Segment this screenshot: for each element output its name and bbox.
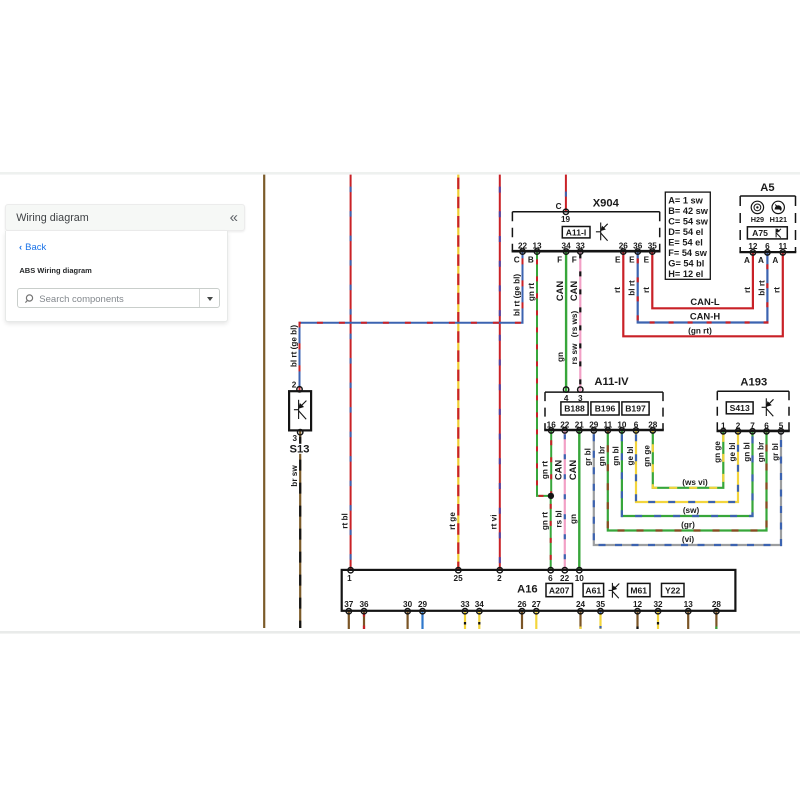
svg-text:S13: S13 bbox=[290, 444, 310, 456]
svg-text:C: C bbox=[514, 256, 520, 265]
wire gn bl (sw) U: A11-IV pin10 to A193 pin7 bbox=[622, 430, 753, 516]
wire rt bl vertical to A16 pin1 bbox=[350, 175, 352, 571]
svg-text:gn: gn bbox=[556, 352, 565, 362]
svg-text:E: E bbox=[615, 256, 621, 265]
svg-text:gn: gn bbox=[569, 514, 578, 524]
svg-text:B: B bbox=[528, 256, 534, 265]
svg-text:gn bl: gn bl bbox=[742, 442, 751, 462]
svg-text:G= 54 bl: G= 54 bl bbox=[668, 259, 704, 269]
A16 bottom pin numbers bbox=[344, 600, 721, 609]
svg-text:33: 33 bbox=[460, 600, 470, 609]
svg-text:gn ge: gn ge bbox=[713, 441, 722, 463]
svg-text:A193: A193 bbox=[740, 376, 767, 388]
svg-text:16: 16 bbox=[547, 421, 557, 430]
top separator bbox=[0, 172, 800, 175]
A16 bottom stub pin36 br rt bbox=[363, 611, 365, 629]
svg-text:F: F bbox=[572, 256, 577, 265]
A5 internal box A75 bbox=[747, 227, 787, 239]
bottom separator bbox=[0, 631, 800, 634]
A11-IV bottom pin circles bbox=[549, 428, 656, 433]
svg-text:A11-IV: A11-IV bbox=[594, 376, 629, 388]
svg-text:CAN: CAN bbox=[553, 460, 564, 481]
A193 pin numbers 1 2 7 6 5 bbox=[721, 421, 784, 430]
wire CAN rs bl: A11-IV pin22 to A16 pin22 bbox=[564, 430, 566, 570]
X904 internal box A11-I bbox=[562, 227, 590, 238]
wire bl rt CAN-H U: X904 pin36 to A5 pin6 bbox=[638, 251, 768, 322]
left UI panel bbox=[5, 204, 245, 231]
A5 pin numbers 12 6 11 bbox=[748, 242, 787, 251]
svg-text:A75: A75 bbox=[752, 228, 768, 238]
B188 B196 B197 text bbox=[564, 404, 646, 414]
wire ge bl U: A11-IV pin6 to A193 pin2 bbox=[636, 430, 738, 502]
S13 switch icon bbox=[294, 400, 307, 419]
svg-text:A: A bbox=[744, 256, 750, 265]
A16 bottom stub pin28 br gn bbox=[715, 611, 717, 629]
junction node gn rt bbox=[548, 493, 554, 499]
svg-text:B197: B197 bbox=[625, 404, 646, 414]
A5 lamp icon H29 bbox=[751, 201, 763, 213]
wire gn rt: junction to A16 pin6 bbox=[550, 496, 552, 571]
A11-IV bottom pin numbers bbox=[547, 421, 658, 430]
svg-text:12: 12 bbox=[748, 242, 758, 251]
svg-text:bl rt: bl rt bbox=[628, 280, 637, 296]
svg-text:6: 6 bbox=[548, 574, 553, 583]
A16 bottom stub pin13 br bbox=[687, 611, 689, 629]
svg-text:A207: A207 bbox=[549, 585, 570, 595]
svg-text:36: 36 bbox=[633, 241, 643, 250]
svg-text:26: 26 bbox=[517, 600, 527, 609]
svg-text:(gn rt): (gn rt) bbox=[688, 326, 712, 335]
svg-text:13: 13 bbox=[532, 241, 542, 250]
legend text bbox=[668, 195, 708, 279]
svg-text:7: 7 bbox=[750, 421, 755, 430]
svg-text:rt vi: rt vi bbox=[490, 514, 499, 529]
svg-text:CAN: CAN bbox=[554, 281, 565, 302]
svg-text:2: 2 bbox=[292, 381, 297, 390]
svg-text:gr bl: gr bl bbox=[771, 443, 780, 461]
wire gn rt: A11-IV pin16 down to junction bbox=[550, 430, 552, 496]
svg-text:10: 10 bbox=[575, 574, 585, 583]
svg-text:A: A bbox=[772, 256, 778, 265]
A193 internal box S413 bbox=[726, 402, 753, 414]
svg-text:A5: A5 bbox=[760, 182, 774, 194]
svg-text:24: 24 bbox=[576, 600, 586, 609]
A16 bottom pin circles bbox=[346, 609, 719, 614]
svg-text:rt: rt bbox=[613, 287, 622, 293]
A16 bottom stub pin26 br bbox=[521, 611, 523, 629]
svg-text:29: 29 bbox=[418, 600, 428, 609]
svg-text:3: 3 bbox=[292, 434, 297, 443]
svg-text:rs bl: rs bl bbox=[555, 510, 564, 527]
svg-text:gn bl: gn bl bbox=[612, 446, 621, 466]
A5 indicator icon H121 bbox=[772, 201, 784, 213]
connector A5 frame bbox=[739, 196, 796, 252]
svg-text:B188: B188 bbox=[564, 404, 585, 414]
svg-text:gn br: gn br bbox=[598, 445, 607, 466]
svg-text:CAN: CAN bbox=[567, 460, 578, 481]
wire gr bl (vi) U: A11-IV pin29 to A193 pin5 bbox=[594, 430, 781, 545]
svg-text:33: 33 bbox=[576, 241, 586, 250]
connector A193 frame bbox=[717, 391, 790, 431]
A16 bottom stub pin35 ge bl bbox=[599, 611, 601, 629]
svg-text:gn rt: gn rt bbox=[527, 283, 536, 301]
X904 pin letters C B F F E E E bbox=[514, 256, 650, 265]
svg-text:2: 2 bbox=[497, 574, 502, 583]
svg-text:E: E bbox=[644, 256, 650, 265]
wire CAN gn: X904 pin34 to A11-IV pin4 bbox=[565, 251, 567, 392]
X904 bottom pin circles 22 13 34 33 26 36 35 bbox=[520, 249, 655, 254]
wire rt ge vertical to A16 pin25 bbox=[457, 175, 459, 571]
svg-text:H121: H121 bbox=[770, 215, 787, 224]
wire rt bl feed into X904 pin C bbox=[565, 175, 567, 213]
svg-text:rs sw: rs sw bbox=[570, 343, 579, 365]
svg-text:11: 11 bbox=[778, 242, 787, 251]
svg-text:rt ge: rt ge bbox=[448, 512, 457, 530]
wire rt CAN-L U: X904 pin35 to A5 pin12 bbox=[652, 251, 753, 308]
A5 pin letters A A A bbox=[744, 256, 778, 265]
svg-text:ge bl: ge bl bbox=[728, 442, 737, 461]
svg-text:22: 22 bbox=[560, 421, 570, 430]
svg-text:rt: rt bbox=[642, 287, 651, 293]
S13 title bbox=[289, 444, 310, 454]
svg-text:(rs ws): (rs ws) bbox=[570, 311, 579, 338]
A11-IV top pin circles 4 3 bbox=[563, 387, 583, 392]
svg-text:25: 25 bbox=[454, 574, 464, 583]
S13 pin circles 2 3 bbox=[297, 387, 303, 435]
svg-text:(sw): (sw) bbox=[683, 506, 700, 515]
svg-text:C: C bbox=[556, 202, 562, 211]
wire rt (gn rt) U: X904 pin26 to A5 pin11 bbox=[623, 251, 783, 336]
svg-text:28: 28 bbox=[648, 421, 658, 430]
A16 top pin circles 1 25 2 6 22 10 bbox=[348, 568, 582, 573]
svg-text:A61: A61 bbox=[585, 585, 601, 595]
A16 bottom stub pin30 br bbox=[407, 611, 409, 629]
connector A11-IV frame bbox=[544, 392, 664, 430]
svg-text:37: 37 bbox=[344, 600, 354, 609]
svg-text:36: 36 bbox=[359, 600, 369, 609]
svg-text:br sw: br sw bbox=[290, 465, 299, 487]
svg-text:D= 54 el: D= 54 el bbox=[668, 227, 703, 237]
svg-text:CAN: CAN bbox=[568, 281, 579, 302]
A16 internal box texts bbox=[549, 585, 681, 595]
wire rt vi vertical to A16 pin2 bbox=[499, 175, 501, 571]
svg-text:32: 32 bbox=[653, 600, 663, 609]
component S13 box bbox=[289, 391, 311, 430]
svg-text:gn rt: gn rt bbox=[541, 461, 550, 479]
svg-text:30: 30 bbox=[403, 600, 413, 609]
A16 bottom stub pin12 br sw bbox=[636, 611, 638, 629]
legend box bbox=[665, 192, 710, 279]
svg-text:B= 42 sw: B= 42 sw bbox=[668, 206, 708, 216]
A11-IV top pin numbers 4 3 bbox=[564, 394, 583, 403]
A16 bottom stub pin32 ge sw bbox=[657, 611, 659, 629]
svg-text:(vi): (vi) bbox=[682, 535, 695, 544]
wire CAN rs sw: X904 pin33 to A11-IV pin3 bbox=[579, 251, 581, 392]
A16 bottom stub pin37 br bbox=[348, 611, 350, 629]
svg-text:E: E bbox=[629, 256, 635, 265]
svg-text:27: 27 bbox=[532, 600, 542, 609]
A16 bottom stub pin34 ge sw bbox=[478, 611, 480, 629]
svg-text:Y22: Y22 bbox=[665, 585, 681, 595]
wire br sw from S13 pin3 to bottom bbox=[299, 431, 301, 628]
A193 pin circles 1 2 7 6 5 bbox=[721, 429, 784, 434]
svg-text:ge bl: ge bl bbox=[626, 446, 635, 465]
svg-text:gn rt: gn rt bbox=[541, 512, 550, 530]
svg-text:11: 11 bbox=[603, 421, 612, 430]
svg-text:12: 12 bbox=[633, 600, 643, 609]
svg-text:X904: X904 bbox=[593, 198, 620, 210]
X904 pin circle C/19 bbox=[563, 209, 568, 214]
A16 top pin numbers bbox=[347, 574, 584, 583]
svg-text:rt bl: rt bl bbox=[340, 513, 349, 528]
A5 pin circles 12 6 11 bbox=[750, 250, 785, 255]
wire br vertical feed bbox=[263, 175, 265, 628]
svg-text:bl rt: bl rt bbox=[757, 280, 766, 296]
svg-text:35: 35 bbox=[596, 600, 606, 609]
svg-text:H= 12 el: H= 12 el bbox=[668, 269, 703, 279]
svg-text:2: 2 bbox=[736, 421, 741, 430]
svg-text:(gr): (gr) bbox=[681, 521, 695, 530]
A16 control-unit icon bbox=[609, 583, 620, 598]
connector A16 box bbox=[342, 570, 736, 611]
A11-IV internal boxes B188 B196 B197 bbox=[561, 402, 649, 415]
svg-text:S413: S413 bbox=[730, 403, 750, 413]
wire gn ge (ws vi) U: A11-IV pin28 to A193 pin1 bbox=[653, 430, 724, 488]
svg-text:4: 4 bbox=[564, 394, 569, 403]
svg-text:E= 54 el: E= 54 el bbox=[668, 238, 702, 248]
svg-text:29: 29 bbox=[589, 421, 599, 430]
svg-text:6: 6 bbox=[634, 421, 639, 430]
svg-text:rt: rt bbox=[743, 287, 752, 293]
svg-text:28: 28 bbox=[712, 600, 722, 609]
svg-text:M61: M61 bbox=[630, 585, 647, 595]
X904 bottom pin numbers bbox=[518, 241, 657, 250]
svg-text:C= 54 sw: C= 54 sw bbox=[668, 217, 708, 227]
svg-text:(ws vi): (ws vi) bbox=[682, 478, 708, 487]
svg-text:34: 34 bbox=[562, 241, 572, 250]
svg-text:H29: H29 bbox=[751, 215, 764, 224]
svg-text:6: 6 bbox=[764, 421, 769, 430]
A16 bottom stub pin33 ge sw bbox=[464, 611, 466, 629]
A16 bottom stub pin29 bl bbox=[421, 611, 423, 629]
svg-text:A= 1 sw: A= 1 sw bbox=[668, 195, 703, 205]
svg-text:19: 19 bbox=[561, 215, 571, 224]
wire gn br (gr) U: A11-IV pin11 to A193 pin6 bbox=[608, 430, 767, 530]
X904 control-unit icon bbox=[596, 223, 608, 241]
wire gn rt: X904 pin13 down and right to junction bbox=[537, 251, 551, 496]
A193 control-unit icon bbox=[762, 398, 774, 416]
svg-text:F: F bbox=[557, 256, 562, 265]
svg-text:10: 10 bbox=[617, 421, 627, 430]
svg-text:6: 6 bbox=[765, 242, 770, 251]
svg-text:A16: A16 bbox=[517, 583, 538, 595]
A75 icon bbox=[776, 229, 781, 238]
connector X904 frame bbox=[512, 212, 661, 251]
svg-text:26: 26 bbox=[619, 241, 629, 250]
svg-text:13: 13 bbox=[684, 600, 694, 609]
svg-text:rt: rt bbox=[773, 287, 782, 293]
svg-text:5: 5 bbox=[779, 421, 784, 430]
svg-text:3: 3 bbox=[578, 394, 583, 403]
svg-text:CAN-L: CAN-L bbox=[690, 296, 719, 307]
A16 bottom stub pin24 br ge bbox=[579, 611, 581, 629]
A16 internal boxes A207 A61 M61 Y22 bbox=[546, 583, 684, 596]
svg-text:gn br: gn br bbox=[756, 441, 765, 462]
svg-text:CAN-H: CAN-H bbox=[690, 310, 720, 321]
svg-text:34: 34 bbox=[475, 600, 485, 609]
svg-text:1: 1 bbox=[721, 421, 726, 430]
wire CAN gn: A11-IV pin21 to A16 pin10 bbox=[578, 430, 580, 570]
A16 bottom stub pin27 ge bbox=[535, 611, 537, 629]
svg-text:1: 1 bbox=[347, 574, 352, 583]
svg-text:A11-I: A11-I bbox=[566, 228, 587, 238]
svg-text:22: 22 bbox=[518, 241, 528, 250]
wire bl rt (ge bl): X904 pin22 to S13 pin2 bbox=[300, 251, 523, 391]
svg-text:gn ge: gn ge bbox=[643, 445, 652, 467]
svg-text:F= 54 sw: F= 54 sw bbox=[668, 248, 707, 258]
svg-text:22: 22 bbox=[560, 574, 570, 583]
svg-text:B196: B196 bbox=[595, 404, 616, 414]
svg-text:A: A bbox=[758, 256, 764, 265]
svg-text:gr bl: gr bl bbox=[584, 448, 593, 466]
svg-text:bl rt (ge bl): bl rt (ge bl) bbox=[289, 325, 298, 368]
svg-text:bl rt (ge bl): bl rt (ge bl) bbox=[513, 274, 522, 317]
svg-text:35: 35 bbox=[648, 241, 658, 250]
svg-text:21: 21 bbox=[575, 421, 585, 430]
